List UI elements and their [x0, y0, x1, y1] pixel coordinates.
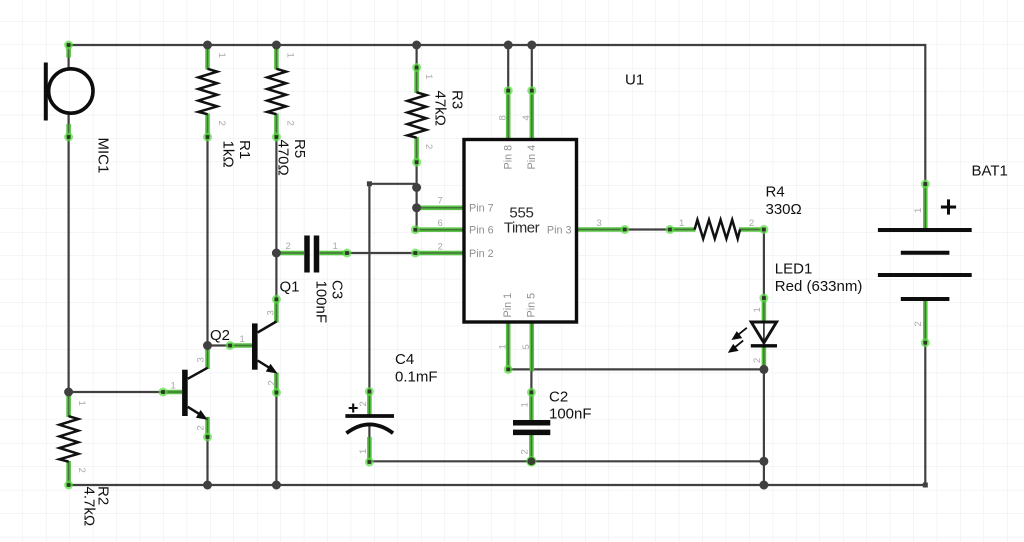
wire mic stub top	[67, 55, 69, 68]
wire-end mic pin2 green	[66, 124, 71, 138]
svg-text:1: 1	[76, 401, 87, 406]
wire R4 corner down to LED	[763, 230, 765, 299]
transistor Q1 collector green	[274, 299, 279, 323]
junction dot top rail R1	[203, 41, 212, 50]
junction dot pin7	[412, 203, 421, 212]
resistor R4 pin2 green	[739, 227, 764, 232]
wire-end marker C4 top	[365, 387, 374, 396]
resistor R3 pin2 green	[414, 137, 419, 163]
junction dot bottom rail Q1	[272, 481, 281, 490]
wire-end marker C3 right	[343, 249, 352, 258]
LED1 inner wire	[763, 322, 765, 344]
svg-text:1: 1	[520, 402, 531, 407]
svg-text:C4: C4	[395, 351, 414, 368]
capacitor C3 pin1 green	[320, 251, 348, 256]
junction dot middle wire LED column	[759, 457, 768, 466]
wire-end marker R4 corner	[759, 225, 768, 234]
wire-end marker pin8 top	[504, 86, 513, 95]
svg-text:R5: R5	[291, 139, 308, 158]
svg-text:3: 3	[266, 310, 277, 315]
transistor Q2 collector green	[205, 347, 210, 370]
pin 4 lead green	[529, 91, 534, 141]
svg-text:1: 1	[285, 53, 296, 58]
junction dot top rail R3	[412, 41, 421, 50]
wire-end marker R2 bottom	[64, 481, 73, 490]
capacitor C2 pin1 green	[529, 392, 534, 420]
wire right rail upper (to battery)	[924, 44, 926, 184]
wire-end marker mic top corner	[64, 41, 73, 50]
wire-end marker R3 bottom	[412, 158, 421, 167]
LED1 anode green	[762, 298, 767, 322]
wire C3 to pin2	[347, 252, 416, 254]
wire-end marker Q1 base left	[226, 341, 235, 350]
wire R5 bottom through C3 node to Q1 collector	[275, 136, 277, 300]
wire C4 below arc	[368, 424, 370, 437]
svg-text:6: 6	[438, 218, 443, 229]
svg-text:Pin 6: Pin 6	[469, 225, 494, 237]
resistor R3	[407, 92, 426, 137]
wire R3 bottom to pin6 node	[416, 162, 418, 230]
wire-end marker C2 mid	[527, 388, 536, 397]
wire pin5 to C2	[530, 371, 532, 392]
junction dot Q1 base / Q2 collector	[203, 341, 212, 350]
wire R3 top stub	[416, 45, 418, 68]
svg-text:R1: R1	[236, 140, 253, 159]
wire-end marker pin2 left	[411, 249, 420, 258]
green lead center shading	[69, 43, 926, 486]
junction dot LED cathode / pin1 wire	[759, 365, 768, 374]
pin 6 lead green	[415, 227, 464, 232]
svg-text:100nF: 100nF	[313, 281, 330, 324]
battery pin1 green	[923, 184, 928, 231]
corner square C4 link left end	[367, 181, 372, 186]
svg-text:2: 2	[423, 144, 434, 149]
wire-end marker Q2 emitter end	[203, 433, 212, 442]
LED LED1	[730, 322, 777, 352]
resistor R5	[267, 69, 286, 114]
resistor R1 pin2 green	[205, 114, 210, 138]
resistor R4	[695, 220, 740, 239]
wire LED cathode column to bottom rail	[763, 369, 765, 485]
wire top rail	[69, 44, 926, 46]
svg-text:LED1: LED1	[775, 261, 813, 278]
wire pin1 horizontal to LED column	[508, 368, 764, 370]
junction dot R3/C4 link	[412, 183, 421, 192]
wire C4 top vertical	[368, 184, 370, 392]
svg-text:Pin 4: Pin 4	[526, 145, 538, 170]
svg-text:47kΩ: 47kΩ	[432, 91, 449, 126]
wire bottom rail	[69, 484, 926, 486]
wire-end marker battery top	[921, 180, 930, 189]
svg-text:7: 7	[438, 196, 443, 207]
svg-text:2: 2	[358, 401, 369, 406]
svg-text:R4: R4	[766, 184, 785, 201]
wire-end marker mic bottom	[64, 133, 73, 142]
svg-text:100nF: 100nF	[549, 406, 592, 423]
svg-text:C2: C2	[549, 389, 568, 406]
svg-text:2: 2	[749, 218, 754, 229]
transistor Q2 base green	[163, 390, 182, 395]
svg-text:4.7kΩ: 4.7kΩ	[81, 487, 98, 527]
wire right rail lower (battery to bottom)	[924, 343, 926, 485]
resistor R1	[198, 69, 217, 114]
svg-text:470Ω: 470Ω	[275, 140, 292, 176]
transistor Q1	[252, 322, 278, 374]
svg-text:0.1mF: 0.1mF	[395, 369, 438, 386]
capacitor C3 pin2 green	[277, 251, 304, 256]
wire-end marker Q1 collector top	[272, 295, 281, 304]
svg-text:4: 4	[521, 115, 532, 120]
svg-text:MIC1: MIC1	[95, 138, 112, 174]
wire-end marker Q1 emitter end	[272, 388, 281, 397]
junction dot mic / Q2 base / R2	[64, 388, 73, 397]
svg-text:U1: U1	[625, 72, 644, 89]
svg-text:2: 2	[752, 358, 763, 363]
LED1 cathode green	[762, 346, 767, 370]
svg-text:2: 2	[438, 242, 443, 253]
wire pin4 stub	[531, 45, 533, 91]
wire-end marker C4 bottom	[365, 458, 374, 467]
svg-text:2: 2	[520, 449, 531, 454]
junction dot top rail R5	[272, 41, 281, 50]
svg-text:1: 1	[171, 381, 176, 392]
svg-text:5: 5	[521, 344, 532, 349]
wire-end marker R1 bottom	[203, 133, 212, 142]
op-amp U1 555 timer body	[464, 140, 577, 323]
svg-text:BAT1: BAT1	[972, 163, 1008, 180]
junction dot C3/R5/Q1	[272, 249, 281, 258]
wire horizontal R3-C4 link	[369, 183, 416, 185]
svg-text:Q1: Q1	[280, 279, 300, 296]
transistor Q2	[182, 368, 208, 420]
capacitor C4	[345, 404, 394, 434]
resistor R1 pin1 green	[205, 45, 210, 70]
pin 5 lead green	[529, 322, 534, 372]
pin 8 lead green	[506, 91, 511, 141]
transistor Q2 emitter green	[205, 417, 210, 438]
svg-text:2: 2	[267, 380, 278, 385]
junction dot bottom rail Q2	[203, 481, 212, 490]
svg-text:Pin 7: Pin 7	[469, 203, 494, 215]
capacitor C4 pin2 green	[367, 391, 372, 415]
svg-text:3: 3	[196, 357, 207, 362]
svg-text:3: 3	[597, 218, 602, 229]
svg-text:Pin 8: Pin 8	[503, 145, 515, 170]
wire Q1 emitter to bottom rail	[275, 393, 277, 486]
svg-text:1: 1	[423, 74, 434, 79]
svg-text:1: 1	[240, 334, 245, 345]
wire Q1 base horizontal	[208, 344, 232, 346]
svg-text:330Ω: 330Ω	[766, 201, 802, 218]
capacitor C2	[513, 423, 550, 433]
wire-end marker battery bottom	[921, 338, 930, 347]
capacitor C2 pin2 green	[529, 435, 534, 461]
pin 2 lead green	[415, 251, 464, 256]
svg-text:1kΩ: 1kΩ	[220, 141, 237, 168]
wire-end marker pin6 left	[411, 225, 420, 234]
wire Q2 emitter to bottom rail	[206, 437, 208, 485]
junction dot top rail pin4	[527, 41, 536, 50]
junction dot C2 bottom (green cast)	[526, 456, 536, 466]
junction dot bottom rail LED column	[759, 481, 768, 490]
junction dot top rail pin8	[504, 41, 513, 50]
resistor R2 pin1 green	[66, 392, 71, 417]
svg-text:1: 1	[333, 241, 338, 252]
wire-end marker R4 left	[665, 225, 674, 234]
svg-text:2: 2	[913, 321, 924, 326]
svg-text:Timer: Timer	[504, 220, 540, 237]
svg-text:2: 2	[285, 121, 296, 126]
wire-end marker Q2 base left	[159, 388, 168, 397]
svg-text:2: 2	[196, 425, 207, 430]
transistor Q1 emitter green	[274, 373, 279, 394]
resistor R2	[59, 416, 78, 461]
wire pin8 stub	[507, 45, 509, 91]
svg-text:2: 2	[76, 468, 87, 473]
svg-text:1: 1	[913, 208, 924, 213]
svg-text:2: 2	[286, 241, 291, 252]
svg-text:1: 1	[358, 449, 369, 454]
svg-text:1: 1	[752, 307, 763, 312]
svg-text:R3: R3	[449, 90, 466, 109]
wire-end mic pin1 green	[66, 43, 71, 58]
resistor R4 pin1 green	[670, 227, 696, 232]
battery pin2 green	[923, 299, 928, 343]
wire R1 bottom to Q1 base node	[206, 136, 208, 346]
svg-text:Pin 5: Pin 5	[526, 293, 538, 318]
svg-text:C3: C3	[329, 280, 346, 299]
pin 3 lead green	[576, 227, 625, 232]
wire-end marker pin4 top	[527, 86, 536, 95]
svg-text:1: 1	[216, 53, 227, 58]
pin 7 lead green	[417, 206, 465, 211]
svg-text:Pin 2: Pin 2	[469, 248, 494, 260]
svg-text:8: 8	[498, 115, 509, 120]
resistor R3 pin1 green	[414, 67, 419, 93]
resistor R2 pin2 green	[66, 461, 71, 486]
svg-text:1: 1	[498, 344, 509, 349]
wire-end marker pin3 right	[620, 225, 629, 234]
wire-end marker R5 bottom	[272, 133, 281, 142]
svg-text:Red (633nm): Red (633nm)	[775, 278, 863, 295]
capacitor C4 pin1 green	[367, 437, 372, 462]
svg-text:Q2: Q2	[210, 327, 230, 344]
microphone MIC1	[46, 63, 93, 121]
battery BAT1	[878, 199, 972, 299]
wire-end marker LED top	[759, 294, 768, 303]
svg-text:Pin 1: Pin 1	[502, 293, 514, 318]
wire-end marker R3 top	[412, 63, 421, 72]
resistor R5 pin1 green	[274, 45, 279, 70]
svg-text:1: 1	[679, 218, 684, 229]
svg-text:2: 2	[216, 121, 227, 126]
svg-text:Pin 3: Pin 3	[547, 225, 572, 237]
capacitor C3	[307, 236, 317, 273]
wire middle horizontal C4-C2-LED	[369, 460, 764, 462]
wire-end marker pin1 bottom	[504, 365, 513, 374]
wire Q2 base horizontal	[69, 391, 164, 393]
wire mic to Q2 base node	[67, 137, 69, 393]
resistor R5 pin2 green	[274, 114, 279, 138]
corner square bottom right	[923, 483, 928, 488]
wire mic stub bottom	[67, 112, 69, 125]
wire pin3 to R4	[625, 228, 671, 230]
transistor Q1 base green	[230, 343, 252, 348]
pin 1 lead green	[506, 322, 511, 369]
